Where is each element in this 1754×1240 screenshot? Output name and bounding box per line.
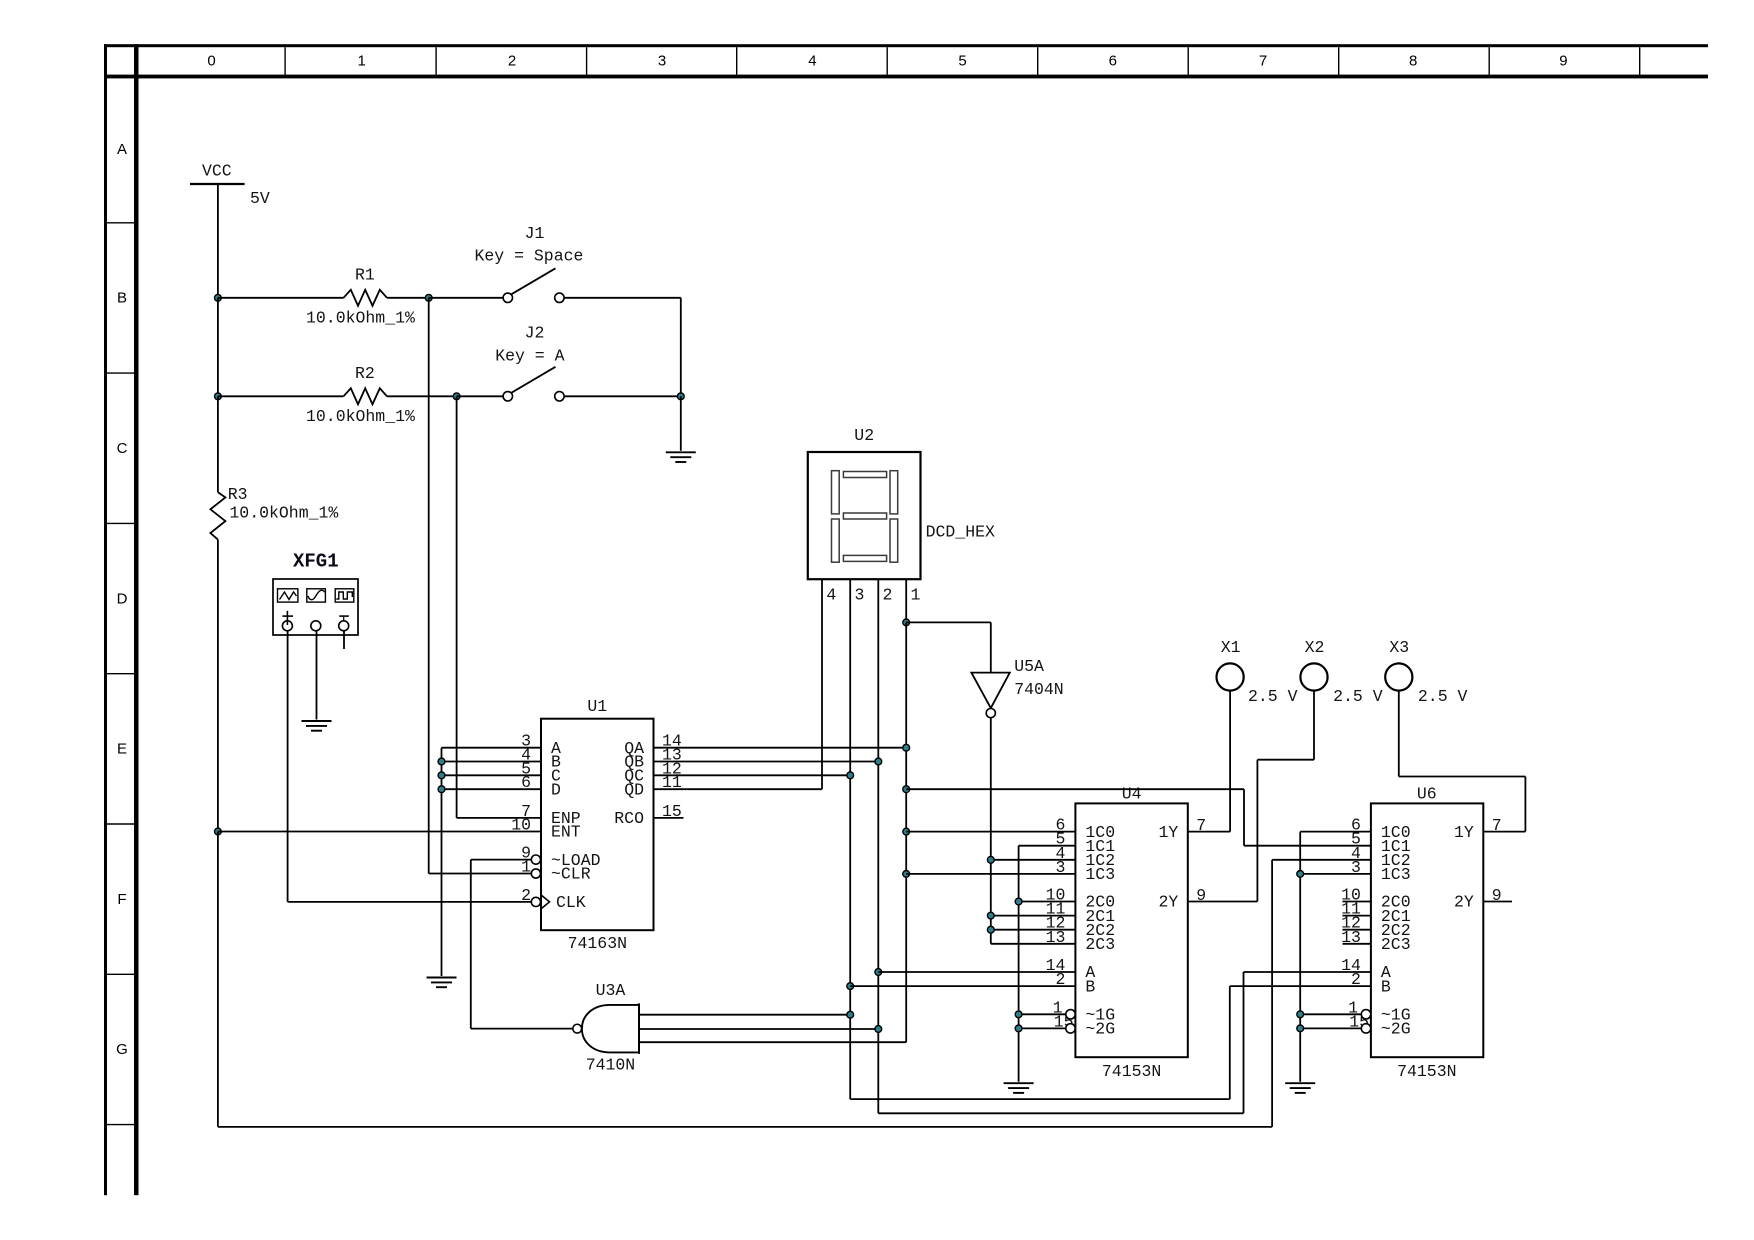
pin 1 U1 ~CLR [521, 858, 591, 884]
multiplexer U4 74153N body [1075, 785, 1187, 1082]
node U1 B tie [438, 758, 445, 765]
wire R2 right lead [387, 395, 457, 397]
svg-text:74153N: 74153N [1397, 1062, 1456, 1081]
switch J1 [475, 224, 584, 303]
svg-text:9: 9 [1559, 52, 1567, 69]
ground U1 data inputs [427, 978, 457, 988]
power VCC [190, 162, 270, 209]
wire J2 net to ENP [457, 396, 541, 818]
svg-text:U3A: U3A [596, 981, 626, 1000]
pin 7 U4 1Y [1158, 816, 1206, 842]
wire U1 B input [442, 761, 542, 763]
wire R3 to ENT node [217, 540, 219, 832]
wire U3A input2 [639, 1028, 878, 1030]
node U1 D tie [438, 786, 445, 793]
svg-text:X1: X1 [1221, 638, 1241, 657]
svg-text:8: 8 [1409, 52, 1417, 69]
wire QA row [654, 747, 907, 749]
svg-text:3: 3 [658, 52, 666, 69]
node U6 gnd ~2G [1297, 1025, 1304, 1032]
wire R1 to J1 pole [429, 297, 503, 299]
node U5A to 2C2 [987, 926, 994, 933]
wire J1 net to ~CLR [429, 298, 532, 874]
pin 5 U1 C [521, 759, 561, 785]
ground XFG1 [302, 721, 332, 731]
svg-text:7: 7 [1259, 52, 1267, 69]
wire U6 1C1 [1244, 789, 1371, 846]
svg-text:10.0kOhm_1%: 10.0kOhm_1% [229, 504, 338, 523]
node U5A to 1C2 [987, 856, 994, 863]
pin 14 U1 QA [624, 732, 682, 758]
wire R2 left lead [218, 395, 344, 397]
svg-text:2C3: 2C3 [1085, 935, 1115, 954]
node QC U3A branch [847, 1011, 854, 1018]
svg-text:U5A: U5A [1014, 657, 1044, 676]
pin 3 U1 A [521, 732, 561, 758]
wire U4 2C0 stub [1019, 901, 1076, 903]
wire U6 B input [1230, 986, 1371, 1099]
counter U1 74163N body [541, 697, 654, 953]
svg-text:~2G: ~2G [1381, 1020, 1411, 1039]
node QB row junction [875, 758, 882, 765]
wire VCC rail to R3 [217, 396, 219, 492]
bubble U4 ~1G [1066, 1010, 1075, 1019]
svg-text:1Y: 1Y [1158, 823, 1178, 842]
wire U6 1C2 [1272, 860, 1371, 1127]
wire U5A output down [990, 718, 992, 944]
svg-text:1C3: 1C3 [1381, 865, 1411, 884]
wire QB to U6 A [878, 1112, 1243, 1114]
svg-text:R1: R1 [355, 266, 375, 285]
node gnd ~2G [1015, 1025, 1022, 1032]
svg-text:A: A [117, 141, 127, 158]
wire ENT net to U6 1C2 [218, 1126, 1272, 1128]
wire X3 to U6 1Y [1399, 691, 1526, 832]
wire U6 2C3 stub [1343, 943, 1371, 945]
frame zone labels [116, 52, 1567, 1058]
wire U4 1C2 stub [991, 859, 1076, 861]
node VCC/R2 junction [215, 393, 222, 400]
wire U3A output to ~LOAD [471, 860, 573, 1029]
wire U6 gnd vertical [1299, 832, 1301, 1082]
pin 12 U1 QC [624, 759, 682, 785]
pins U6 left labels [1341, 816, 1411, 1039]
pin 7 U6 1Y [1454, 816, 1502, 842]
svg-text:XFG1: XFG1 [293, 551, 339, 573]
node gnd ~1G [1015, 1011, 1022, 1018]
svg-text:Key = Space: Key = Space [475, 247, 584, 266]
node U6 gnd 1C3 [1297, 871, 1304, 878]
nand gate U3A 7410N [573, 981, 639, 1075]
wire U6 2C2 stub [1343, 929, 1371, 931]
wire U1 C input [442, 774, 542, 776]
svg-text:3: 3 [855, 586, 865, 605]
pin 13 U1 QB [624, 746, 682, 772]
svg-text:U1: U1 [587, 697, 607, 716]
svg-text:X3: X3 [1389, 638, 1409, 657]
node QB U4A branch [875, 969, 882, 976]
ground U4 enables [1004, 1083, 1034, 1093]
wire U4 B input [850, 985, 1075, 987]
svg-text:J2: J2 [525, 324, 545, 343]
svg-text:D: D [551, 780, 561, 799]
wire QA to U6 row [906, 788, 1244, 790]
svg-text:2.5 V: 2.5 V [1333, 687, 1383, 706]
svg-text:4: 4 [826, 586, 836, 605]
svg-text:F: F [117, 891, 126, 908]
wire R1 right lead [387, 297, 429, 299]
wire ~LOAD input [471, 859, 532, 861]
pin 11 U1 QD [624, 773, 682, 799]
pin 1 U2 [906, 579, 920, 622]
svg-text:1: 1 [358, 52, 366, 69]
svg-text:C: C [117, 440, 128, 457]
svg-text:2C3: 2C3 [1381, 935, 1411, 954]
wire QC row [654, 774, 851, 776]
svg-text:2Y: 2Y [1158, 893, 1178, 912]
display U2 DCD_HEX [808, 426, 995, 579]
svg-text:2: 2 [883, 586, 893, 605]
node R3/ENT junction [215, 828, 222, 835]
node R1/J1 junction [425, 294, 432, 301]
wire U6 1C3 [1300, 873, 1371, 875]
wire U6 ~1G stub [1300, 1013, 1362, 1015]
wire U6 A input [1244, 972, 1371, 1113]
wire U4 gnd vertical [1018, 846, 1020, 1082]
wire U6 2Y stub [1483, 901, 1512, 903]
node QC U4B branch [847, 983, 854, 990]
wire U3A input1 [639, 1014, 850, 1016]
multiplexer U6 74153N body [1371, 785, 1483, 1082]
wire U4 1Y to X1 [1188, 691, 1230, 832]
svg-text:D: D [117, 590, 128, 607]
node QA 1C3 branch [903, 871, 910, 878]
node U2 pin1 / U5A branch [903, 619, 910, 626]
node QA row junction [903, 744, 910, 751]
svg-text:0: 0 [207, 52, 215, 69]
svg-text:74153N: 74153N [1102, 1062, 1161, 1081]
wire R2 to J2 pole [457, 395, 504, 397]
svg-text:6: 6 [521, 773, 531, 792]
wire QC to U6 B [850, 1098, 1230, 1100]
wire U4 A input [878, 971, 1075, 973]
wire J2 to ground net [564, 395, 681, 397]
pin 2 U2 [878, 579, 892, 761]
svg-text:VCC: VCC [202, 162, 232, 181]
wire U6 2C1 stub [1343, 915, 1371, 917]
wire U5A input feed [906, 622, 991, 672]
svg-text:7: 7 [1492, 816, 1502, 835]
svg-text:2.5 V: 2.5 V [1248, 687, 1298, 706]
svg-text:2.5 V: 2.5 V [1418, 687, 1468, 706]
svg-text:U6: U6 [1417, 785, 1437, 804]
wire ENT input [218, 831, 541, 833]
ground U6 enables [1285, 1083, 1315, 1093]
svg-text:U2: U2 [854, 426, 874, 445]
resistor R1 [306, 266, 415, 328]
pin 7 U1 ENP [521, 802, 581, 828]
pin 9 U1 ~LOAD [521, 844, 601, 870]
node R2/J2 junction [453, 393, 460, 400]
svg-text:QD: QD [624, 780, 644, 799]
resistor R2 [306, 364, 415, 426]
wire U4 1C1 stub [1019, 845, 1076, 847]
wire J1 to ground corner [564, 298, 681, 397]
pin 4 U2 [822, 579, 836, 789]
wire U4 2Y to X2 [1188, 691, 1314, 902]
svg-text:1: 1 [911, 586, 921, 605]
wire XFG1 plus to CLK [288, 631, 532, 902]
wire U4 2C2 stub [991, 929, 1076, 931]
svg-text:6: 6 [1109, 52, 1117, 69]
lamp X3 [1385, 638, 1467, 706]
svg-text:~2G: ~2G [1085, 1020, 1115, 1039]
bubble U6 ~2G [1361, 1024, 1370, 1033]
wire U6 1C0 [1300, 831, 1371, 833]
node QA 1C0 branch [903, 828, 910, 835]
svg-text:10.0kOhm_1%: 10.0kOhm_1% [306, 407, 415, 426]
svg-text:Key = A: Key = A [495, 347, 564, 366]
svg-text:B: B [1085, 977, 1095, 996]
svg-text:B: B [1381, 977, 1391, 996]
svg-text:2: 2 [508, 52, 516, 69]
svg-text:74163N: 74163N [568, 934, 627, 953]
wire U1 D input [442, 788, 542, 790]
resistor R3 [210, 485, 338, 540]
bubble U6 ~1G [1361, 1010, 1370, 1019]
pin 2 U1 CLK [521, 886, 586, 912]
svg-text:CLK: CLK [556, 893, 586, 912]
svg-text:1C3: 1C3 [1085, 865, 1115, 884]
svg-text:B: B [117, 290, 127, 307]
wire U4 2C1 stub [991, 915, 1076, 917]
pin 9 U6 2Y [1454, 886, 1502, 912]
svg-text:U4: U4 [1122, 785, 1142, 804]
pin 4 U1 B [521, 746, 561, 772]
bubble U4 ~2G [1066, 1024, 1075, 1033]
wire VCC rail down [217, 184, 219, 298]
wire ENT net down [217, 832, 219, 1127]
svg-text:5V: 5V [250, 189, 270, 208]
svg-text:2Y: 2Y [1454, 893, 1474, 912]
pin 10 U1 ENT [511, 816, 581, 842]
svg-text:~CLR: ~CLR [551, 865, 591, 884]
node U1 C tie [438, 772, 445, 779]
svg-text:J1: J1 [525, 224, 545, 243]
svg-text:DCD_HEX: DCD_HEX [926, 523, 995, 542]
pin 9 U4 2Y [1158, 886, 1206, 912]
switch J2 [495, 324, 564, 401]
svg-text:7404N: 7404N [1014, 680, 1064, 699]
wire U4 ~1G stub [1019, 1013, 1067, 1015]
node QC row junction [847, 772, 854, 779]
wire QB row [654, 761, 879, 763]
svg-text:ENT: ENT [551, 823, 581, 842]
wire switch ground drop [680, 396, 682, 451]
pin 6 U1 D [521, 773, 561, 799]
wire ABCD tie vertical [441, 748, 443, 976]
wire U4 ~2G stub [1019, 1027, 1067, 1029]
wire XFG1 minus stub [343, 631, 345, 649]
node VCC/R1 junction [215, 294, 222, 301]
svg-text:5: 5 [958, 52, 966, 69]
svg-text:4: 4 [808, 52, 816, 69]
function generator XFG1 [273, 551, 358, 636]
wire QB net vertical [877, 762, 879, 1114]
wire U4 1C3 [906, 873, 1075, 875]
wire XFG1 common down [316, 631, 318, 720]
wire RCO stub [654, 817, 684, 819]
lamp X2 [1300, 638, 1382, 706]
svg-text:2: 2 [521, 886, 531, 905]
wire QD row [654, 788, 823, 790]
wire QA net vertical [905, 622, 907, 874]
svg-text:G: G [116, 1041, 128, 1058]
node J1/J2 ground junction [677, 393, 684, 400]
node U5A to 2C1 [987, 912, 994, 919]
wire U3A input3 [639, 874, 906, 1042]
wire U6 ~2G stub [1300, 1027, 1362, 1029]
wire U4 2C3 stub [991, 943, 1076, 945]
lamp X1 [1217, 638, 1298, 706]
node gnd 2C0 [1015, 898, 1022, 905]
svg-text:RCO: RCO [614, 809, 644, 828]
svg-text:R3: R3 [228, 485, 248, 504]
wire VCC rail to R2 [217, 298, 219, 397]
svg-text:X2: X2 [1305, 638, 1325, 657]
svg-text:10.0kOhm_1%: 10.0kOhm_1% [306, 309, 415, 328]
node QB U3A branch [875, 1026, 882, 1033]
wire U4 1C0 [906, 831, 1075, 833]
wire QC net vertical [849, 775, 851, 1099]
svg-text:E: E [117, 741, 127, 758]
wire U1 A input [442, 747, 542, 749]
svg-text:7410N: 7410N [586, 1056, 636, 1075]
ground switches [666, 452, 696, 462]
pin 3 U2 [850, 579, 864, 775]
node QA 789 branch [903, 786, 910, 793]
node U6 gnd ~1G [1297, 1011, 1304, 1018]
pin 15 U1 RCO [614, 802, 682, 828]
wire U6 2C0 stub [1343, 901, 1371, 903]
svg-text:R2: R2 [355, 364, 375, 383]
svg-text:1Y: 1Y [1454, 823, 1474, 842]
pins U4 left labels [1046, 816, 1116, 1039]
svg-text:1: 1 [521, 858, 531, 877]
wire R1 left lead [218, 297, 344, 299]
inverter U5A 7404N [971, 657, 1063, 718]
